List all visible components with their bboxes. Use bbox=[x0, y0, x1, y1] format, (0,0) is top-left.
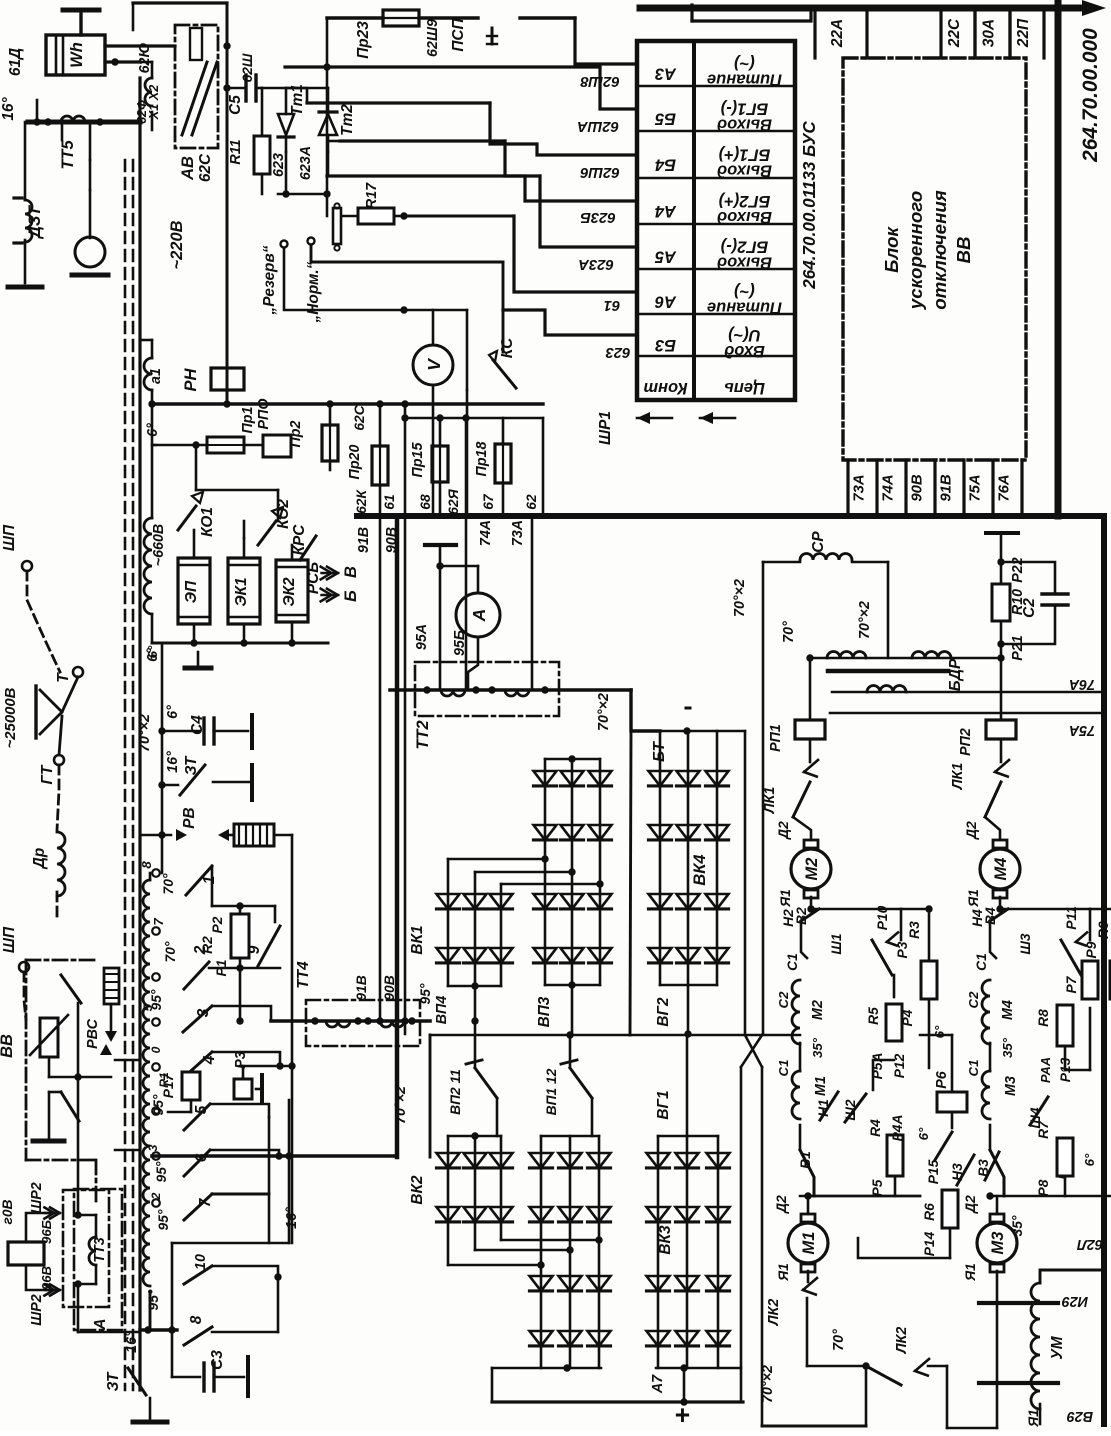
svg-text:Цепь: Цепь bbox=[724, 379, 765, 397]
svg-text:16°: 16° bbox=[0, 97, 17, 121]
svg-text:Р6: Р6 bbox=[934, 1070, 950, 1089]
svg-text:РАА: РАА bbox=[1039, 1057, 1053, 1083]
svg-text:ШП: ШП bbox=[1, 926, 18, 953]
svg-text:М3: М3 bbox=[1003, 1076, 1019, 1096]
svg-text:М1: М1 bbox=[813, 1076, 829, 1096]
svg-text:Я1: Я1 bbox=[776, 1263, 791, 1282]
svg-text:ВП4: ВП4 bbox=[434, 996, 450, 1025]
svg-text:С5: С5 bbox=[227, 95, 244, 115]
svg-text:16°: 16° bbox=[284, 1207, 300, 1229]
svg-text:С4: С4 bbox=[189, 715, 206, 735]
svg-text:Д2: Д2 bbox=[964, 821, 979, 840]
svg-text:С2: С2 bbox=[776, 991, 791, 1009]
svg-text:90В: 90В bbox=[910, 474, 926, 502]
svg-text:Ш3: Ш3 bbox=[1018, 933, 1033, 955]
svg-text:Я1: Я1 bbox=[966, 889, 981, 908]
svg-text:Р12: Р12 bbox=[892, 1053, 907, 1078]
svg-text:Пр18: Пр18 bbox=[474, 441, 490, 476]
svg-text:62Ю: 62Ю bbox=[137, 43, 153, 74]
svg-text:Я1: Я1 bbox=[963, 1263, 978, 1282]
svg-text:ВВ: ВВ bbox=[0, 1034, 16, 1058]
svg-text:М1: М1 bbox=[800, 1232, 818, 1255]
svg-text:6°: 6° bbox=[916, 1127, 931, 1140]
svg-text:ЛК2: ЛК2 bbox=[766, 1299, 782, 1327]
svg-text:(~): (~) bbox=[734, 283, 755, 301]
svg-text:„Норм.“: „Норм.“ bbox=[305, 261, 322, 323]
svg-text:ускоренного: ускоренного bbox=[905, 191, 926, 310]
svg-text:Б3: Б3 bbox=[655, 336, 676, 354]
svg-text:Д2: Д2 bbox=[776, 821, 791, 840]
svg-text:Р2: Р2 bbox=[210, 916, 225, 933]
svg-text:КС: КС bbox=[499, 337, 516, 358]
svg-text:РВ: РВ bbox=[181, 807, 198, 828]
svg-text:ШР2: ШР2 bbox=[29, 1182, 45, 1214]
svg-text:ЛК2: ЛК2 bbox=[894, 1327, 910, 1355]
svg-text:ЛК1: ЛК1 bbox=[762, 787, 778, 815]
svg-text:Р17: Р17 bbox=[161, 1072, 176, 1098]
svg-text:С1: С1 bbox=[776, 1060, 791, 1077]
svg-text:~660В: ~660В bbox=[151, 524, 167, 567]
svg-text:Р10: Р10 bbox=[875, 905, 890, 930]
svg-text:70°: 70° bbox=[781, 621, 797, 643]
svg-text:6°: 6° bbox=[165, 705, 181, 719]
svg-text:30А: 30А bbox=[981, 19, 998, 47]
svg-text:ГТ: ГТ bbox=[39, 764, 56, 784]
svg-text:Р3: Р3 bbox=[895, 941, 910, 958]
svg-text:Пр1: Пр1 bbox=[240, 406, 256, 433]
svg-text:+: + bbox=[674, 1400, 689, 1430]
svg-text:264.70.00.01133 БУС: 264.70.00.01133 БУС bbox=[800, 121, 819, 290]
svg-text:264.70.00.000: 264.70.00.000 bbox=[1079, 28, 1102, 163]
svg-text:ДЗТ: ДЗТ bbox=[26, 204, 44, 240]
svg-text:70°×2: 70°×2 bbox=[857, 601, 873, 639]
svg-text:10: 10 bbox=[193, 1254, 209, 1270]
svg-text:Wh: Wh bbox=[68, 42, 86, 68]
svg-text:А3: А3 bbox=[655, 65, 677, 83]
svg-text:Р8: Р8 bbox=[1036, 1179, 1051, 1196]
svg-text:95А: 95А bbox=[414, 624, 430, 650]
svg-text:ЗТ: ЗТ bbox=[105, 1371, 122, 1391]
svg-text:ВП1 12: ВП1 12 bbox=[544, 1068, 559, 1115]
svg-text:С1: С1 bbox=[785, 953, 800, 971]
svg-text:623А: 623А bbox=[578, 256, 614, 272]
svg-text:67: 67 bbox=[481, 493, 496, 510]
svg-text:70°×2: 70°×2 bbox=[732, 579, 748, 617]
svg-text:РП1: РП1 bbox=[768, 724, 784, 752]
svg-text:Р14: Р14 bbox=[922, 1231, 937, 1256]
svg-text:70°×2: 70°×2 bbox=[760, 1365, 776, 1403]
svg-text:62ША: 62ША bbox=[577, 118, 619, 134]
svg-text:Блок: Блок bbox=[881, 226, 902, 273]
svg-text:62Я: 62Я bbox=[446, 488, 461, 514]
svg-text:6°: 6° bbox=[145, 645, 160, 658]
svg-text:3: 3 bbox=[146, 1144, 160, 1151]
svg-text:Д2: Д2 bbox=[774, 1195, 789, 1214]
svg-text:Р9: Р9 bbox=[1084, 941, 1099, 958]
svg-text:90В: 90В bbox=[382, 975, 397, 1000]
svg-text:М4: М4 bbox=[992, 858, 1010, 881]
svg-text:Р7: Р7 bbox=[1064, 975, 1079, 993]
svg-text:В: В bbox=[342, 566, 360, 578]
svg-text:АВ: АВ bbox=[179, 156, 197, 181]
svg-text:ВП2 11: ВП2 11 bbox=[448, 1069, 463, 1115]
svg-text:623: 623 bbox=[605, 344, 631, 360]
svg-text:Б: Б bbox=[342, 590, 360, 602]
svg-text:~220В: ~220В bbox=[168, 220, 186, 269]
svg-text:95Б: 95Б bbox=[452, 630, 468, 656]
svg-text:ВГ2: ВГ2 bbox=[655, 997, 672, 1027]
svg-text:623Б: 623Б bbox=[580, 209, 615, 225]
svg-text:Ш1: Ш1 bbox=[829, 933, 844, 954]
svg-text:КО1: КО1 bbox=[199, 507, 216, 537]
svg-text:ЭК2: ЭК2 bbox=[281, 577, 298, 607]
svg-text:91В: 91В bbox=[356, 527, 372, 553]
svg-text:ШР1: ШР1 bbox=[597, 411, 614, 445]
svg-text:отключения: отключения bbox=[929, 190, 950, 310]
svg-text:Конт: Конт bbox=[643, 379, 687, 397]
svg-text:Тт2: Тт2 bbox=[339, 104, 356, 136]
svg-text:7: 7 bbox=[151, 918, 166, 926]
svg-text:ТТ2: ТТ2 bbox=[414, 720, 432, 749]
svg-text:95°: 95° bbox=[146, 1289, 161, 1310]
svg-text:70°×2: 70°×2 bbox=[596, 693, 612, 731]
svg-text:С3: С3 bbox=[209, 1350, 226, 1370]
svg-text:9: 9 bbox=[246, 945, 263, 954]
svg-text:R3: R3 bbox=[907, 921, 922, 939]
svg-text:ТТ3: ТТ3 bbox=[92, 1237, 108, 1262]
svg-text:ТТ5: ТТ5 bbox=[59, 140, 77, 170]
svg-text:75А: 75А bbox=[968, 474, 984, 501]
svg-text:А4: А4 bbox=[655, 202, 677, 220]
svg-text:73А: 73А bbox=[852, 474, 868, 501]
svg-text:22А: 22А bbox=[829, 19, 846, 48]
svg-text:Пр20: Пр20 bbox=[347, 444, 363, 479]
svg-text:А5: А5 bbox=[654, 248, 677, 266]
svg-text:РП2: РП2 bbox=[958, 728, 974, 756]
svg-text:68: 68 bbox=[418, 494, 433, 510]
svg-text:УМ: УМ bbox=[1049, 1335, 1066, 1359]
svg-text:95°: 95° bbox=[156, 1209, 171, 1230]
svg-text:РПО: РПО bbox=[256, 399, 272, 430]
svg-text:И29: И29 bbox=[1062, 1293, 1088, 1309]
svg-text:623: 623 bbox=[271, 153, 287, 177]
svg-text:ТТ4: ТТ4 bbox=[295, 961, 312, 989]
svg-text:(~): (~) bbox=[734, 55, 755, 73]
svg-text:73А: 73А bbox=[510, 520, 526, 546]
svg-text:R5: R5 bbox=[866, 1007, 881, 1025]
svg-text:М4: М4 bbox=[1000, 1000, 1016, 1020]
svg-text:ВВ: ВВ bbox=[953, 237, 974, 264]
svg-text:16°: 16° bbox=[165, 751, 181, 773]
svg-text:70°×2: 70°×2 bbox=[137, 714, 153, 752]
svg-text:В2: В2 bbox=[794, 907, 809, 925]
svg-text:С2: С2 bbox=[1021, 598, 1038, 618]
svg-text:а1: а1 bbox=[148, 368, 164, 384]
svg-text:Б4: Б4 bbox=[655, 156, 676, 174]
svg-text:ВГ1: ВГ1 bbox=[655, 1090, 672, 1119]
svg-text:62С: 62С bbox=[352, 404, 367, 430]
svg-text:Н3: Н3 bbox=[950, 1163, 965, 1181]
svg-text:БДР: БДР bbox=[947, 658, 964, 691]
svg-text:7: 7 bbox=[197, 1197, 214, 1207]
svg-text:Пр2: Пр2 bbox=[288, 420, 304, 447]
svg-text:ВК1: ВК1 bbox=[409, 925, 426, 954]
svg-text:95°: 95° bbox=[154, 1161, 169, 1182]
svg-text:R4: R4 bbox=[868, 1119, 883, 1137]
svg-text:Д2: Д2 bbox=[963, 1195, 978, 1214]
svg-text:16°: 16° bbox=[124, 1331, 140, 1353]
svg-text:8: 8 bbox=[188, 1315, 205, 1324]
svg-text:ВК4: ВК4 bbox=[691, 854, 709, 885]
svg-text:70°: 70° bbox=[163, 941, 178, 962]
svg-text:R11: R11 bbox=[228, 139, 244, 164]
svg-text:R6: R6 bbox=[922, 1203, 937, 1221]
svg-text:А7: А7 bbox=[650, 1374, 666, 1394]
svg-text:90В: 90В bbox=[384, 527, 400, 553]
svg-text:С1: С1 bbox=[974, 953, 989, 971]
svg-text:74А: 74А bbox=[881, 474, 897, 501]
svg-text:БГ1(-): БГ1(-) bbox=[720, 100, 768, 118]
svg-text:62Ш9: 62Ш9 bbox=[425, 19, 441, 57]
svg-text:61: 61 bbox=[382, 494, 397, 509]
svg-text:ШП: ШП bbox=[1, 524, 18, 551]
svg-text:6°: 6° bbox=[1082, 1153, 1097, 1166]
svg-text:БГ1(+): БГ1(+) bbox=[718, 146, 770, 164]
svg-text:74А: 74А bbox=[478, 520, 494, 546]
svg-text:Р21: Р21 bbox=[1010, 635, 1026, 660]
svg-text:62: 62 bbox=[524, 494, 539, 510]
svg-text:62С: 62С bbox=[197, 153, 214, 182]
svg-text:70°: 70° bbox=[161, 873, 176, 894]
svg-text:U(~): U(~) bbox=[728, 326, 761, 344]
svg-text:С1: С1 bbox=[966, 1060, 981, 1077]
svg-text:Др: Др bbox=[31, 848, 48, 871]
svg-text:96Б: 96Б bbox=[39, 1220, 54, 1244]
svg-text:В3: В3 bbox=[976, 1159, 991, 1177]
svg-text:22С: 22С bbox=[946, 18, 963, 48]
svg-text:В1: В1 bbox=[798, 1151, 813, 1169]
svg-text:75А: 75А bbox=[1069, 722, 1095, 738]
svg-text:М3: М3 bbox=[989, 1232, 1007, 1255]
svg-text:ВК2: ВК2 bbox=[409, 1175, 426, 1205]
svg-text:БГ2(+): БГ2(+) bbox=[718, 192, 770, 210]
svg-text:35°: 35° bbox=[810, 1037, 825, 1058]
svg-text:КРС: КРС bbox=[291, 524, 308, 556]
svg-text:70°: 70° bbox=[831, 1329, 847, 1351]
svg-text:R2: R2 bbox=[200, 936, 215, 954]
svg-text:Р4А: Р4А bbox=[890, 1115, 905, 1142]
svg-text:62К: 62К bbox=[354, 489, 369, 514]
svg-text:А6: А6 bbox=[654, 293, 677, 311]
svg-text:В29: В29 bbox=[1067, 1408, 1093, 1424]
svg-text:70°×2: 70°×2 bbox=[393, 1086, 409, 1124]
svg-text:2: 2 bbox=[149, 1192, 163, 1200]
svg-text:3: 3 bbox=[195, 1008, 212, 1017]
svg-text:Б5: Б5 bbox=[654, 110, 676, 128]
svg-text:Р3: Р3 bbox=[233, 1051, 249, 1069]
svg-text:62Л: 62Л bbox=[1076, 1236, 1103, 1252]
svg-text:ВК3: ВК3 bbox=[657, 1225, 674, 1255]
svg-text:623А: 623А bbox=[298, 146, 314, 180]
svg-text:V: V bbox=[424, 358, 444, 371]
svg-text:М2: М2 bbox=[810, 1000, 826, 1020]
svg-text:СР: СР bbox=[810, 531, 827, 553]
svg-text:61: 61 bbox=[604, 297, 621, 313]
svg-text:Р15: Р15 bbox=[926, 1159, 941, 1184]
svg-text:8: 8 bbox=[139, 861, 154, 869]
svg-text:35°: 35° bbox=[1000, 1037, 1015, 1058]
svg-text:R17: R17 bbox=[364, 182, 380, 209]
svg-text:6°: 6° bbox=[932, 1025, 947, 1038]
svg-text:5: 5 bbox=[193, 1105, 210, 1114]
svg-text:А: А bbox=[469, 609, 489, 623]
svg-text:Пр15: Пр15 bbox=[410, 441, 426, 477]
svg-text:РН: РН bbox=[182, 367, 200, 391]
svg-text:R8: R8 bbox=[1036, 1009, 1051, 1027]
svg-text:4: 4 bbox=[201, 1055, 218, 1065]
svg-text:91В: 91В bbox=[354, 975, 369, 1000]
svg-text:76А: 76А bbox=[1069, 676, 1095, 692]
svg-text:35°: 35° bbox=[1010, 1215, 1025, 1236]
svg-text:С2: С2 bbox=[966, 991, 981, 1009]
svg-text:„Резерв“: „Резерв“ bbox=[261, 245, 278, 315]
svg-text:22П: 22П bbox=[1015, 18, 1032, 48]
svg-text:ПСП: ПСП bbox=[450, 17, 467, 51]
svg-text:Т: Т bbox=[55, 672, 72, 683]
svg-text:R7: R7 bbox=[1036, 1120, 1051, 1139]
svg-text:Р11: Р11 bbox=[1064, 906, 1079, 930]
svg-text:Я1: Я1 bbox=[778, 889, 793, 908]
svg-text:ШР2: ШР2 bbox=[29, 1294, 45, 1326]
svg-text:БТ: БТ bbox=[651, 741, 668, 762]
svg-text:ВП3: ВП3 bbox=[536, 996, 553, 1027]
svg-text:Р5: Р5 bbox=[870, 1179, 885, 1196]
svg-text:ЭК1: ЭК1 bbox=[233, 577, 250, 606]
svg-text:БГ2(-): БГ2(-) bbox=[720, 238, 768, 256]
svg-text:95°: 95° bbox=[418, 983, 433, 1004]
svg-text:95°: 95° bbox=[149, 989, 164, 1010]
svg-text:г0В: г0В bbox=[0, 1199, 15, 1224]
svg-text:Пр23: Пр23 bbox=[355, 21, 372, 59]
svg-text:91В: 91В bbox=[939, 474, 955, 502]
svg-text:0: 0 bbox=[149, 1046, 163, 1053]
svg-text:М2: М2 bbox=[803, 858, 821, 881]
svg-text:61Д: 61Д bbox=[7, 48, 24, 76]
svg-text:В4: В4 bbox=[983, 907, 998, 925]
svg-text:~25000В: ~25000В bbox=[3, 687, 19, 748]
svg-text:62Ш6: 62Ш6 bbox=[580, 164, 620, 180]
svg-text:76А: 76А bbox=[997, 474, 1013, 501]
svg-text:ЭП: ЭП bbox=[183, 580, 200, 603]
svg-text:ЛК1: ЛК1 bbox=[950, 763, 966, 791]
svg-text:А: А bbox=[92, 1318, 109, 1330]
svg-text:R9: R9 bbox=[1096, 921, 1111, 939]
svg-text:РВС: РВС bbox=[85, 1018, 101, 1049]
svg-text:62Ш: 62Ш bbox=[240, 53, 255, 82]
